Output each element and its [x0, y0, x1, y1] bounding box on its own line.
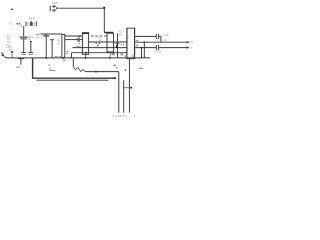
label dash: [139, 67, 144, 69]
svg-text:reg: reg: [98, 38, 102, 42]
node junction: [141, 47, 143, 49]
wire shield drop: [32, 58, 34, 78]
wire shield bus lower: [37, 79, 109, 81]
node junction: [131, 87, 133, 89]
node junction: [45, 57, 47, 59]
wire M1b: [89, 41, 127, 43]
resistor R1: [62, 34, 65, 58]
wire rail A lead-in dashes: [36, 33, 38, 35]
capacitor C10: [156, 34, 158, 39]
wire connector line 1: [118, 72, 120, 113]
capacitor C1 stack: [20, 26, 28, 54]
node junction link: [79, 35, 81, 37]
wire OUT+: [135, 41, 186, 43]
node supply corner: [103, 7, 105, 9]
node junction: [85, 57, 87, 59]
wire stub: [72, 58, 74, 67]
label C7 dots: [77, 43, 80, 47]
label pin numbers: [111, 53, 134, 57]
capacitor C11: [156, 45, 158, 50]
wire supply top: [58, 7, 104, 9]
svg-text:J1: J1: [48, 67, 52, 71]
ferrite bead FB1: [11, 51, 14, 58]
node OUT- arrow: [187, 46, 190, 48]
wire link B1-B2: [65, 35, 83, 37]
capacitor C9: [115, 33, 119, 58]
wire supply vertical: [103, 8, 105, 32]
label rail marks: [55, 56, 61, 57]
wire OUT-: [135, 47, 156, 49]
label plus: [114, 64, 118, 68]
node OUT+ arrow: [187, 41, 190, 43]
svg-text:12V=: 12V=: [52, 1, 59, 5]
node junction: [109, 57, 111, 59]
svg-text:abc d: abc d: [29, 16, 36, 20]
capacitor C5: [50, 40, 54, 58]
twisted pair symbol: [73, 67, 85, 72]
battery BT1: [50, 5, 58, 11]
node junction M3: [85, 52, 87, 54]
label near stub: [67, 51, 69, 54]
wire drop2: [141, 48, 143, 58]
wire rail A: [40, 33, 62, 35]
node junction: [63, 57, 65, 59]
wire ground rail: [6, 57, 150, 59]
capacitor C2: [28, 41, 33, 54]
node arrow: [95, 70, 98, 72]
label connector pins: [112, 114, 136, 118]
wire connector line 2: [123, 80, 125, 112]
capacitor C3 below rail: [16, 59, 24, 67]
label pin marks right: [136, 40, 138, 46]
fuse F1: [17, 21, 37, 27]
svg-text:o-: o-: [190, 46, 192, 49]
label small marks: [51, 55, 52, 56]
svg-text:o+: o+: [190, 41, 193, 44]
svg-text:C4 n1: C4 n1: [35, 36, 42, 40]
wire dashed link: [91, 35, 107, 37]
capacitor C7: [78, 38, 79, 42]
node terminal block: [11, 9, 13, 10]
wire R0: [135, 35, 156, 37]
wire connector line 3: [128, 59, 130, 113]
wire cross tick: [124, 87, 132, 89]
svg-text:C10: C10: [164, 33, 169, 37]
input source arrow: [1, 53, 6, 58]
svg-text:C11: C11: [157, 49, 162, 53]
IC U1: [126, 28, 135, 59]
wire drop1: [143, 42, 145, 58]
label C9 dots: [117, 44, 124, 51]
node dot: [125, 70, 126, 71]
wire M3 stub: [71, 53, 73, 58]
wire M2: [73, 47, 127, 49]
node junction: [144, 42, 146, 44]
svg-text:4u7: 4u7: [6, 36, 11, 40]
capacitor C4: [43, 34, 49, 58]
svg-text:a 2 b 3 c: a 2 b 3 c: [115, 114, 127, 118]
varistor X symbol: [95, 43, 100, 49]
wire M1a: [65, 39, 78, 41]
node bus end dot: [114, 77, 116, 79]
transformer T1: [82, 32, 89, 58]
wire M3: [72, 52, 127, 54]
wire to connector: [86, 71, 119, 73]
wire shield bus upper: [32, 77, 115, 79]
regulator U2: [104, 32, 113, 58]
label C1 dots: [29, 37, 33, 40]
